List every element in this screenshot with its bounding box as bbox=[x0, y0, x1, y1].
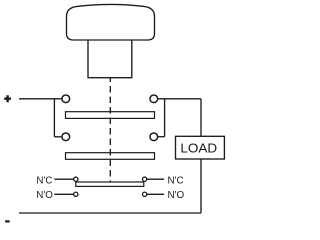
N'C shorting bridge bbox=[76, 182, 144, 186]
actuator dashed link bbox=[109, 78, 111, 183]
N'C left wire bbox=[54, 178, 73, 180]
wire from + terminal bbox=[19, 98, 62, 100]
wire load to bottom rail bbox=[200, 159, 202, 213]
wire right vertical bbox=[164, 99, 166, 137]
+ terminal symbol bbox=[4, 95, 11, 102]
wire left vertical bbox=[53, 99, 55, 137]
svg-text:N'C: N'C bbox=[36, 175, 52, 186]
terminal upper-right bbox=[150, 95, 158, 103]
pushbutton mushroom cap bbox=[67, 4, 155, 40]
pushbutton stem bbox=[88, 40, 132, 78]
wire stub to lower-right terminal bbox=[158, 136, 165, 138]
N'O right wire bbox=[147, 193, 164, 195]
svg-text:LOAD: LOAD bbox=[180, 141, 217, 156]
load box bbox=[176, 136, 225, 159]
N'O left terminal bbox=[74, 192, 78, 196]
svg-text:N'C: N'C bbox=[168, 175, 184, 186]
N'O right terminal bbox=[142, 192, 146, 196]
moving contact bar 2 bbox=[66, 153, 155, 160]
terminal lower-right bbox=[150, 133, 158, 141]
terminal upper-left bbox=[62, 95, 70, 103]
- terminal symbol bbox=[5, 220, 10, 222]
moving contact bar 1 bbox=[66, 112, 155, 119]
wire down to load bbox=[200, 99, 202, 137]
N'C right wire bbox=[147, 178, 164, 180]
bottom rail wire bbox=[19, 212, 201, 214]
terminal lower-left bbox=[62, 133, 70, 141]
svg-text:N'O: N'O bbox=[168, 190, 185, 201]
N'C left terminal bbox=[74, 177, 78, 181]
N'O left wire bbox=[54, 193, 73, 195]
wire to load top bbox=[158, 98, 201, 100]
svg-text:N'O: N'O bbox=[36, 190, 53, 201]
wire stub to lower-left terminal bbox=[54, 136, 62, 138]
N'C right terminal bbox=[142, 177, 146, 181]
